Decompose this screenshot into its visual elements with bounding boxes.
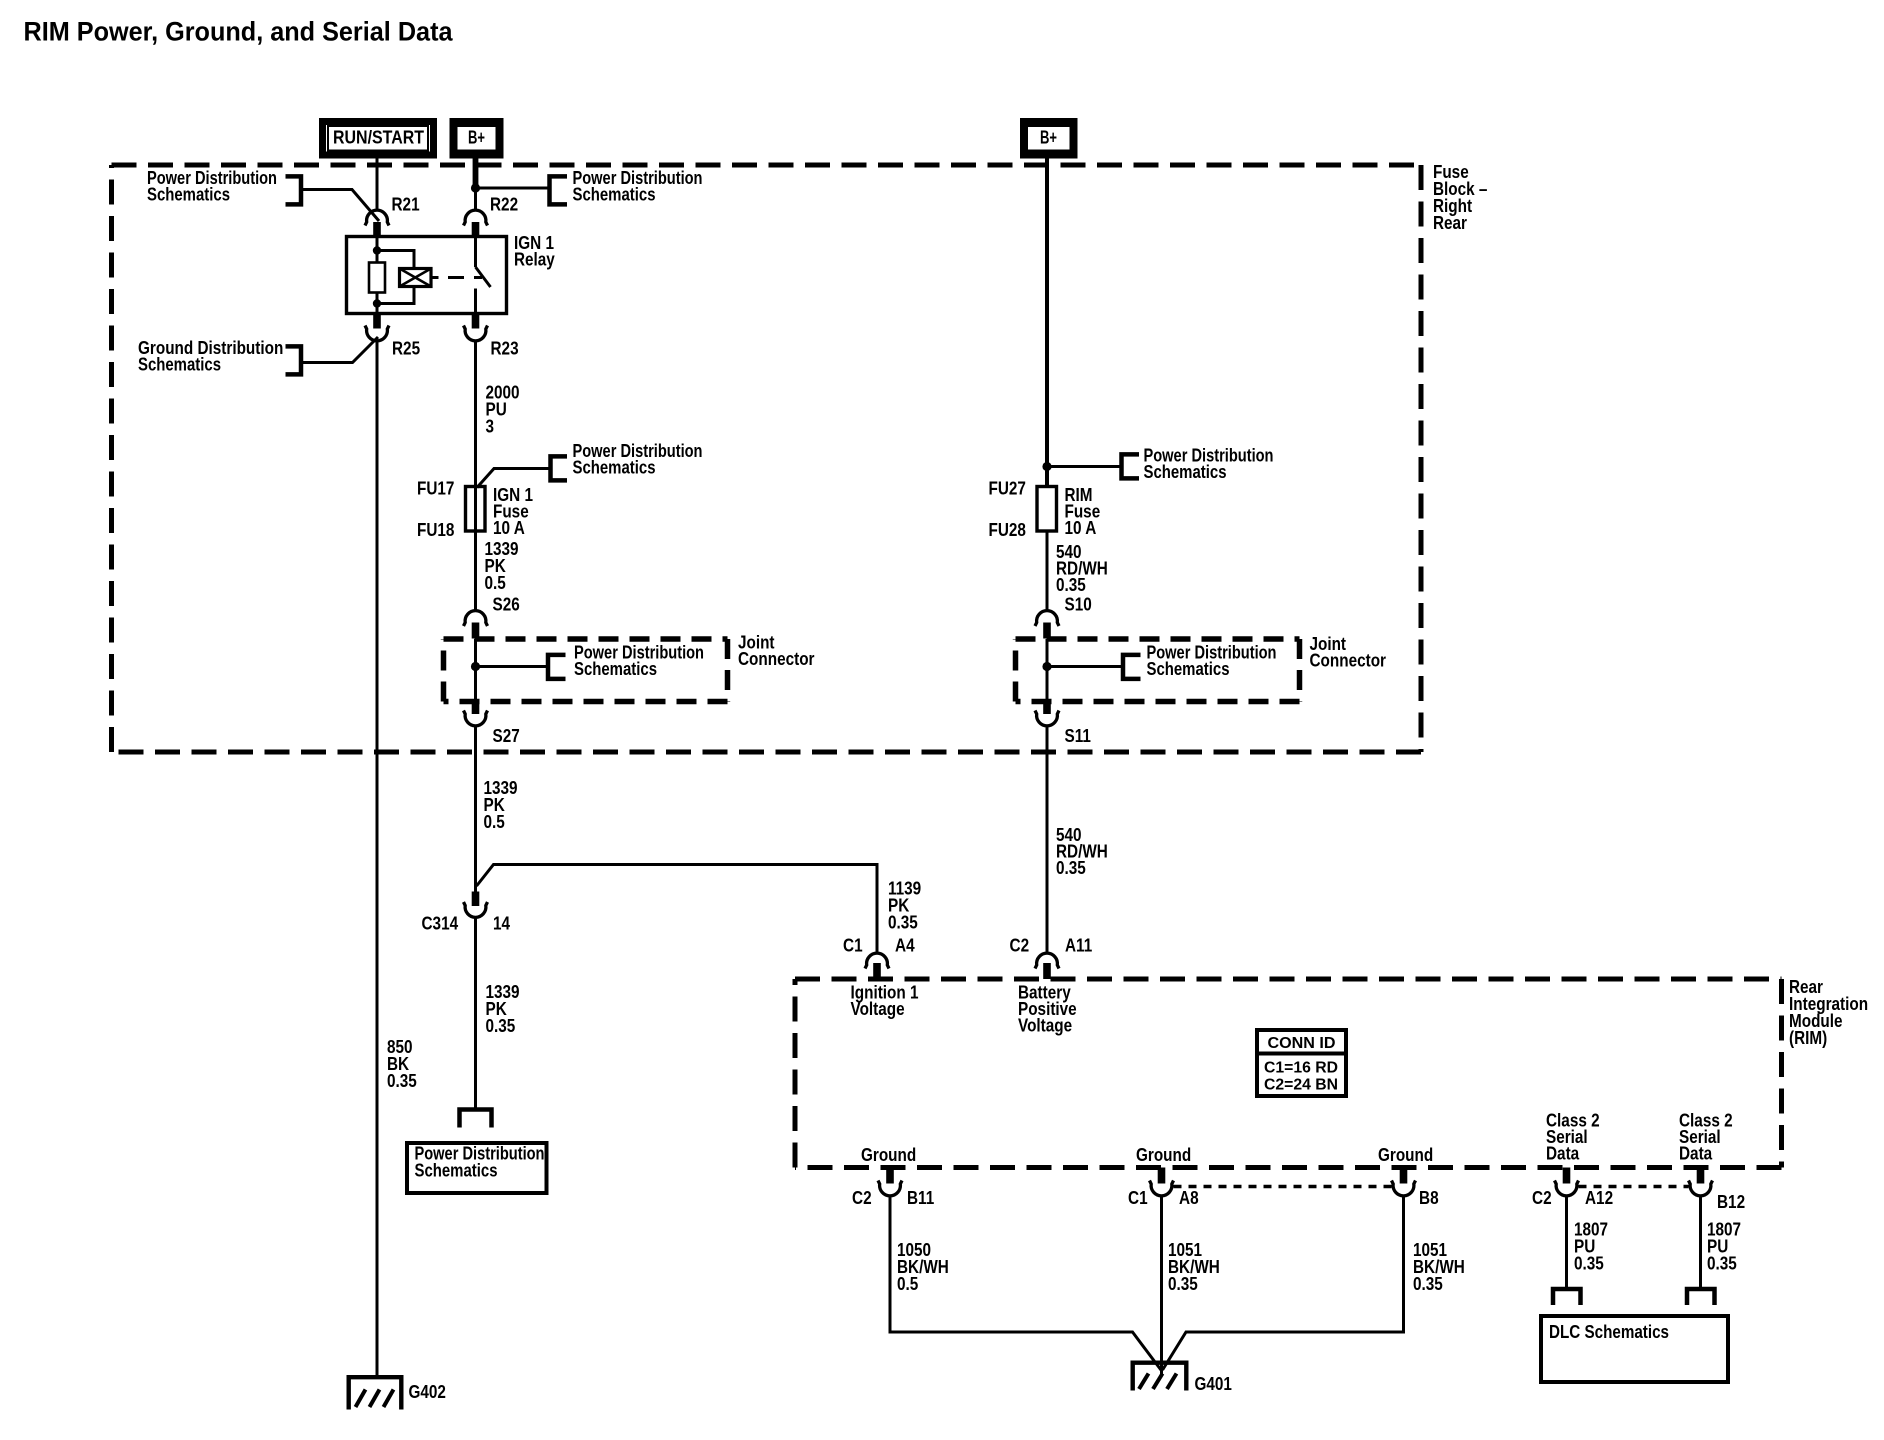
ground G401	[1133, 1363, 1187, 1391]
wire B11 to ground bus	[890, 1196, 1161, 1370]
joint connector dashed box (left)	[444, 636, 728, 642]
wire B12 down	[1699, 1196, 1702, 1288]
svg-text:A11: A11	[1065, 936, 1092, 956]
connector B8 stub	[1400, 1168, 1408, 1184]
svg-text:0.35: 0.35	[1056, 575, 1086, 595]
label 1807 PU 0.35 (B12)	[1707, 1220, 1741, 1274]
svg-text:FU28: FU28	[989, 520, 1026, 540]
svg-text:C314: C314	[422, 914, 459, 934]
connector R23	[464, 326, 488, 341]
connector A12	[1555, 1181, 1579, 1196]
svg-text:RUN/START: RUN/START	[333, 127, 425, 148]
B+ stub	[473, 159, 479, 188]
wire through joint connector left	[474, 639, 477, 700]
wire resistor bottom	[376, 293, 379, 314]
wire to coil top	[377, 251, 414, 268]
label Rear Integration Module (RIM)	[1789, 977, 1868, 1048]
label 1339 PK 0.5	[485, 539, 519, 593]
relay switch wire bottom	[474, 289, 477, 314]
svg-text:C2=24 BN: C2=24 BN	[1264, 1077, 1338, 1094]
relay switch wire top	[474, 238, 477, 267]
svg-text:10 A: 10 A	[1065, 518, 1097, 538]
bracket joint left	[548, 655, 566, 679]
wire fuse RIM to S10	[1046, 531, 1049, 611]
connector R25	[365, 326, 389, 341]
terminal A12 to DLC	[1553, 1289, 1581, 1305]
svg-text:Schematics: Schematics	[1144, 462, 1227, 482]
connector A8 stub	[1158, 1168, 1166, 1184]
svg-text:B11: B11	[907, 1188, 934, 1208]
connector C314	[464, 902, 488, 917]
CONN ID table	[1255, 1030, 1348, 1096]
svg-text:C1: C1	[1128, 1188, 1148, 1208]
svg-text:0.5: 0.5	[485, 573, 506, 593]
svg-text:A8: A8	[1179, 1188, 1199, 1208]
RIM dashed box	[795, 977, 1782, 982]
svg-text:Voltage: Voltage	[851, 999, 905, 1019]
wire B+ left down to R22	[474, 159, 477, 212]
connector B8	[1392, 1181, 1416, 1196]
bracket for top left label	[286, 176, 302, 204]
wire B+ right down to fuse FU27	[1045, 159, 1049, 487]
svg-text:G402: G402	[409, 1382, 446, 1402]
relay switch armature	[476, 267, 491, 287]
label 1139 PK 0.35	[888, 879, 921, 933]
svg-text:14: 14	[493, 914, 510, 934]
node joint left	[471, 662, 480, 671]
label 850 BK 0.35	[387, 1037, 417, 1091]
node at B+ wire	[471, 183, 480, 192]
box DLC Schematics	[1541, 1316, 1728, 1382]
wire R23 down to fuse	[474, 341, 477, 611]
svg-text:10 A: 10 A	[493, 518, 525, 538]
label 1339 PK 0.35	[486, 982, 520, 1036]
connector R25 stub	[373, 313, 381, 329]
label Power Distribution Schematics (joint right)	[1147, 643, 1277, 680]
svg-text:S10: S10	[1065, 595, 1092, 615]
wire R25 down to G402	[376, 341, 379, 1375]
wire coil bottom	[377, 288, 414, 304]
svg-text:FU27: FU27	[989, 479, 1026, 499]
label 1051 BK/WH 0.35 (A8)	[1168, 1240, 1220, 1294]
svg-text:G401: G401	[1195, 1374, 1232, 1394]
label Power Distribution Schematics (joint left)	[574, 643, 704, 680]
svg-text:Voltage: Voltage	[1018, 1016, 1072, 1036]
pointer wire to fuse FU17	[477, 469, 551, 488]
svg-text:Ground: Ground	[1136, 1145, 1191, 1165]
label Power Distribution Schematics (B+ right)	[1144, 446, 1274, 483]
svg-text:Schematics: Schematics	[147, 185, 230, 205]
fuse RIM	[1037, 487, 1057, 532]
connector S11 stub	[1043, 700, 1051, 715]
svg-text:R23: R23	[491, 339, 519, 359]
connector R23 stub	[472, 313, 480, 329]
svg-text:Ground: Ground	[861, 1145, 916, 1165]
wire RUN/START down to R21	[376, 159, 379, 212]
fuse block label	[1433, 162, 1487, 233]
svg-text:0.5: 0.5	[897, 1274, 918, 1294]
bracket for B+ right label	[1122, 454, 1140, 478]
svg-text:R25: R25	[392, 339, 420, 359]
svg-text:S11: S11	[1065, 726, 1091, 746]
connector B11 stub	[886, 1168, 894, 1184]
label Ignition 1 Voltage	[851, 983, 919, 1020]
dashed mechanical link	[448, 276, 482, 279]
svg-text:Connector: Connector	[738, 649, 815, 669]
label Power Distribution Schematics (top right of R22)	[573, 168, 703, 205]
svg-text:S27: S27	[493, 726, 520, 746]
connector C314 stub	[472, 892, 480, 907]
joint connector dashed box (right)	[1016, 636, 1300, 642]
connector B11	[878, 1181, 902, 1196]
svg-text:Data: Data	[1546, 1144, 1580, 1164]
svg-text:CONN ID: CONN ID	[1268, 1035, 1336, 1052]
node B+ right	[1042, 462, 1051, 471]
label Class 2 Serial Data (B12)	[1679, 1111, 1733, 1164]
svg-text:3: 3	[486, 417, 495, 437]
relay IGN 1 box	[347, 237, 507, 314]
connector B12 stub	[1697, 1168, 1705, 1184]
wire through joint connector right	[1046, 639, 1049, 700]
svg-text:S26: S26	[493, 595, 520, 615]
svg-text:C2: C2	[852, 1188, 872, 1208]
power feed box RUN/START	[323, 122, 434, 156]
wire S11 down to A11	[1046, 726, 1049, 953]
connector R22	[464, 210, 488, 225]
pointer to bracket (B+ right)	[1047, 465, 1122, 468]
wire S27 down to C314	[474, 726, 477, 892]
label Power Distribution Schematics (box)	[415, 1144, 545, 1181]
svg-text:B8: B8	[1419, 1188, 1439, 1208]
svg-text:DLC Schematics: DLC Schematics	[1549, 1322, 1669, 1342]
svg-text:A12: A12	[1585, 1188, 1613, 1208]
svg-text:Relay: Relay	[514, 250, 555, 270]
svg-text:B+: B+	[468, 127, 485, 148]
connector S11	[1035, 711, 1059, 726]
connector S26	[464, 611, 488, 626]
connector A4	[865, 953, 889, 968]
wire node to bracket R22	[476, 187, 550, 190]
bracket for ground distribution label	[286, 346, 302, 374]
svg-text:Ground: Ground	[1378, 1145, 1433, 1165]
svg-text:0.35: 0.35	[888, 913, 918, 933]
dotted link A8 to B8	[1174, 1185, 1392, 1189]
power feed box B+ (right)	[1024, 122, 1075, 156]
svg-text:0.35: 0.35	[1574, 1254, 1604, 1274]
svg-text:C1: C1	[843, 936, 863, 956]
pointer to bracket joint right	[1047, 665, 1123, 668]
svg-text:0.35: 0.35	[1707, 1254, 1737, 1274]
svg-text:C2: C2	[1010, 936, 1030, 956]
label 540 RD/WH 0.35 (lower)	[1056, 825, 1108, 878]
node joint right	[1042, 662, 1051, 671]
svg-text:R21: R21	[392, 195, 420, 215]
relay coil	[400, 269, 432, 287]
label 1050 BK/WH 0.5	[897, 1240, 949, 1294]
svg-text:C1=16 RD: C1=16 RD	[1264, 1060, 1338, 1077]
connector S27 stub	[472, 700, 480, 715]
label Class 2 Serial Data (A12)	[1546, 1111, 1600, 1164]
svg-text:Schematics: Schematics	[574, 659, 657, 679]
label Joint Connector (right)	[1310, 634, 1387, 671]
branch wire to A4	[477, 865, 878, 954]
node relay bottom	[373, 299, 381, 307]
svg-text:C2: C2	[1532, 1188, 1552, 1208]
label Battery Positive Voltage	[1018, 983, 1077, 1036]
label 540 RD/WH 0.35 (upper)	[1056, 542, 1108, 595]
wire C314 down to terminal	[474, 918, 477, 1109]
fuse block dashed box	[112, 163, 1422, 168]
label IGN 1 Fuse 10 A	[493, 485, 533, 538]
svg-text:Schematics: Schematics	[573, 458, 656, 478]
svg-text:Schematics: Schematics	[573, 185, 656, 205]
wire A8 to ground	[1160, 1196, 1163, 1374]
bracket for fuse label	[551, 456, 568, 480]
svg-text:0.35: 0.35	[1056, 858, 1086, 878]
svg-text:FU18: FU18	[417, 520, 454, 540]
relay coil leg wire	[376, 238, 379, 263]
connector A11	[1035, 953, 1059, 968]
label Ground Distribution Schematics	[138, 338, 283, 375]
svg-text:B+: B+	[1040, 127, 1057, 148]
label 1807 PU 0.35 (A12)	[1574, 1220, 1608, 1274]
svg-text:Connector: Connector	[1310, 651, 1387, 671]
power feed box B+ (left)	[453, 122, 500, 156]
svg-text:R22: R22	[490, 195, 518, 215]
svg-text:Schematics: Schematics	[1147, 659, 1230, 679]
connector S27	[464, 711, 488, 726]
label 2000 PU 3	[486, 383, 520, 437]
bracket joint right	[1123, 655, 1141, 679]
label Power Distribution Schematics (top left)	[147, 168, 277, 205]
wire B8 to ground bus	[1163, 1196, 1404, 1370]
svg-text:0.35: 0.35	[1168, 1274, 1198, 1294]
bracket for R22 label	[550, 176, 568, 204]
connector A12 stub	[1563, 1168, 1571, 1184]
node relay top	[373, 246, 381, 254]
label Joint Connector (left)	[738, 633, 815, 670]
label Power Distribution Schematics (fuse pointer)	[573, 441, 703, 478]
svg-text:RIM Power, Ground, and Serial: RIM Power, Ground, and Serial Data	[24, 17, 454, 47]
svg-text:B12: B12	[1717, 1192, 1745, 1212]
svg-text:A4: A4	[895, 936, 915, 956]
dotted link A12 to B12	[1579, 1185, 1689, 1189]
svg-text:Rear: Rear	[1433, 213, 1467, 233]
terminal B12 to DLC	[1687, 1289, 1715, 1305]
connector A8	[1150, 1181, 1174, 1196]
label IGN 1 Relay	[514, 233, 555, 270]
terminal to Power Distribution Schematics box	[460, 1110, 492, 1128]
pointer to bracket joint left	[476, 665, 549, 668]
label 1339 PK 0.5 (below S27)	[484, 778, 518, 832]
box Power Distribution Schematics	[407, 1143, 547, 1193]
fuse IGN 1	[466, 487, 486, 532]
connector B12	[1689, 1181, 1713, 1196]
label 1051 BK/WH 0.35 (B8)	[1413, 1240, 1465, 1294]
svg-text:Schematics: Schematics	[138, 355, 221, 375]
svg-text:(RIM): (RIM)	[1789, 1028, 1827, 1048]
connector S10	[1035, 611, 1059, 626]
resistor inside relay	[369, 263, 385, 293]
pointer wire to R21	[303, 190, 379, 222]
svg-text:Schematics: Schematics	[415, 1161, 498, 1181]
svg-text:Data: Data	[1679, 1144, 1713, 1164]
svg-text:0.5: 0.5	[484, 812, 505, 832]
svg-text:0.35: 0.35	[387, 1071, 417, 1091]
connector R21	[365, 210, 389, 225]
ground G402	[349, 1377, 402, 1409]
pointer wire to R25	[303, 337, 378, 363]
svg-text:0.35: 0.35	[486, 1016, 516, 1036]
svg-text:0.35: 0.35	[1413, 1274, 1443, 1294]
coil right tail	[433, 276, 439, 279]
label RIM Fuse 10 A	[1065, 485, 1101, 538]
svg-text:FU17: FU17	[417, 479, 454, 499]
wire A12 down	[1565, 1196, 1568, 1288]
